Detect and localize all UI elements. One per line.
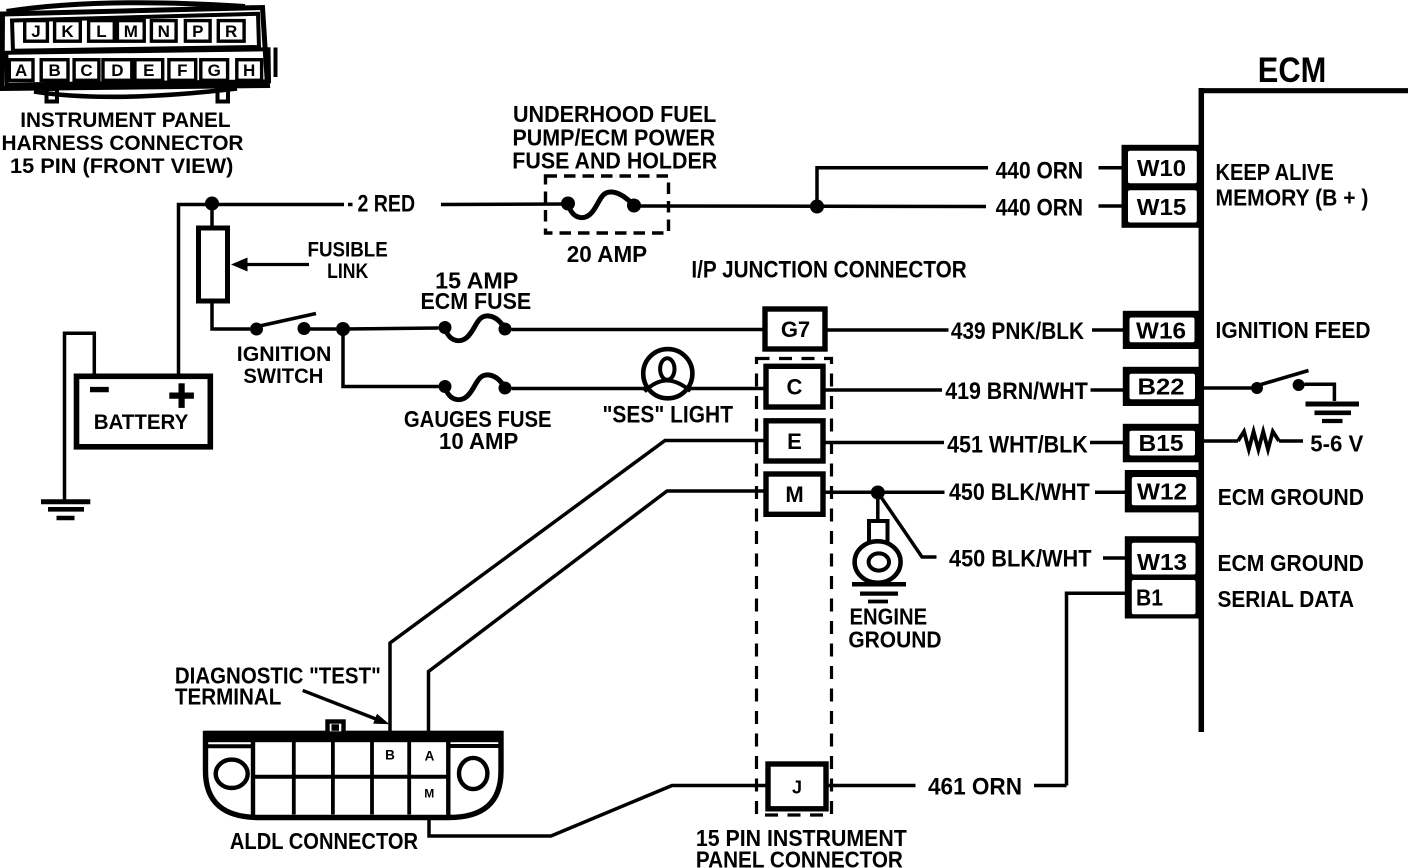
connector pin G7 xyxy=(765,309,825,349)
ALDL test tab xyxy=(328,722,344,734)
svg-text:UNDERHOOD FUEL: UNDERHOOD FUEL xyxy=(513,101,716,127)
svg-text:W10: W10 xyxy=(1137,155,1186,181)
pin G xyxy=(201,60,228,81)
pin F xyxy=(169,60,196,81)
connector pin C xyxy=(766,366,823,407)
svg-text:B: B xyxy=(385,748,395,763)
wire gauges fuse to SES light xyxy=(512,387,647,391)
svg-text:M: M xyxy=(424,787,434,801)
fuse F2 gauges fuse 10 AMP xyxy=(439,380,452,393)
connector pin J xyxy=(768,764,826,809)
svg-text:SERIAL DATA: SERIAL DATA xyxy=(1218,586,1355,612)
pin P xyxy=(185,21,210,42)
pin L xyxy=(89,21,115,42)
pin N xyxy=(151,21,176,42)
wire E to 451 WHT/BLK xyxy=(823,441,944,445)
wire 20A fuse to junction to 440 ORN lower xyxy=(634,204,986,208)
wire stub to W10 xyxy=(1099,166,1124,170)
svg-text:ALDL CONNECTOR: ALDL CONNECTOR xyxy=(230,828,419,854)
svg-text:L: L xyxy=(96,22,106,41)
svg-text:A: A xyxy=(425,749,435,764)
engine ground grommet xyxy=(855,541,901,583)
node fusible link tap xyxy=(205,197,219,211)
svg-text:W15: W15 xyxy=(1137,194,1187,220)
arrow fusible link callout xyxy=(245,263,309,266)
svg-text:W13: W13 xyxy=(1137,549,1187,575)
svg-text:D: D xyxy=(111,61,123,80)
wire M to 450 BLK/WHT xyxy=(823,491,945,495)
wire ALDL A terminal to M xyxy=(429,491,767,733)
wire stub to B22 xyxy=(1091,388,1125,392)
svg-text:GROUND: GROUND xyxy=(848,626,941,652)
svg-text:M: M xyxy=(785,482,803,507)
ground battery xyxy=(41,499,90,504)
svg-text:FUSE AND HOLDER: FUSE AND HOLDER xyxy=(512,147,717,173)
svg-text:20 AMP: 20 AMP xyxy=(567,241,647,267)
wire G7 to 439 PNK/BLK xyxy=(825,328,949,332)
svg-text:F: F xyxy=(177,61,187,80)
instrument panel harness connector drawing xyxy=(2,3,276,102)
svg-text:450 BLK/WHT: 450 BLK/WHT xyxy=(949,546,1092,573)
wire SES light to C xyxy=(690,387,766,391)
fuse F1 15 AMP ECM fuse xyxy=(439,321,452,334)
svg-text:J: J xyxy=(31,22,40,41)
svg-text:R: R xyxy=(225,22,237,41)
pin B xyxy=(41,60,68,81)
wire B1 serial data to 461 ORN corner xyxy=(1067,593,1127,785)
wire tick before 2 RED xyxy=(348,203,353,207)
dashed holder 20A fuse xyxy=(546,176,669,233)
svg-text:G: G xyxy=(208,61,221,80)
svg-text:ECM GROUND: ECM GROUND xyxy=(1218,484,1364,510)
ECM pin B22 xyxy=(1123,367,1203,406)
lamp SES light xyxy=(643,349,692,398)
node junction 440 ORN xyxy=(810,200,824,214)
svg-text:C: C xyxy=(787,375,803,400)
svg-text:PANEL CONNECTOR: PANEL CONNECTOR xyxy=(696,847,903,868)
svg-text:450 BLK/WHT: 450 BLK/WHT xyxy=(949,479,1090,506)
svg-text:LINK: LINK xyxy=(327,259,368,283)
svg-text:B1: B1 xyxy=(1136,585,1163,611)
connector pin M xyxy=(766,474,823,514)
svg-text:FUSIBLE: FUSIBLE xyxy=(308,237,388,261)
ignition switch contact right xyxy=(298,322,311,335)
svg-text:439 PNK/BLK: 439 PNK/BLK xyxy=(951,318,1085,345)
svg-text:J: J xyxy=(792,778,802,798)
svg-text:B22: B22 xyxy=(1138,373,1185,399)
svg-text:M: M xyxy=(124,22,138,41)
svg-text:IGNITION: IGNITION xyxy=(237,343,332,366)
node ignition junction xyxy=(336,322,350,336)
ECM pin B15 xyxy=(1123,424,1203,463)
fuse F3 20 AMP underhood xyxy=(561,197,575,211)
wire 15A fuse to G7 xyxy=(512,328,766,332)
fusible link body xyxy=(199,228,228,301)
wire stub to W12 xyxy=(1095,491,1126,495)
switch at B22 xyxy=(1203,386,1252,390)
wire junction to 15A fuse xyxy=(343,328,439,329)
ground at B22 xyxy=(1306,402,1360,407)
wire ALDL B terminal to E xyxy=(390,441,766,734)
svg-text:W16: W16 xyxy=(1136,318,1186,344)
pin R xyxy=(218,21,244,42)
ground engine ground hatches xyxy=(852,582,906,587)
svg-text:10 AMP: 10 AMP xyxy=(439,428,518,454)
svg-text:P: P xyxy=(192,22,203,41)
svg-text:W12: W12 xyxy=(1137,478,1187,504)
svg-text:451 WHT/BLK: 451 WHT/BLK xyxy=(947,432,1088,459)
svg-text:ECM: ECM xyxy=(1258,50,1327,90)
wire fusible link bottom to ignition switch xyxy=(212,301,250,329)
svg-text:ECM FUSE: ECM FUSE xyxy=(421,288,532,314)
wire stub to W13 xyxy=(1103,556,1126,560)
svg-text:E: E xyxy=(143,61,154,80)
pin D xyxy=(103,60,132,81)
wire battery negative xyxy=(65,333,95,500)
svg-text:E: E xyxy=(787,429,802,454)
wire 461 ORN to corner xyxy=(1034,784,1067,788)
ignition switch contact left xyxy=(250,323,263,336)
svg-text:SWITCH: SWITCH xyxy=(243,365,323,388)
pin K xyxy=(55,21,81,42)
ECM pin W16 xyxy=(1123,311,1202,349)
pin J xyxy=(25,21,48,42)
wire junction down to gauges fuse xyxy=(343,329,439,387)
svg-text:ECM GROUND: ECM GROUND xyxy=(1218,550,1364,576)
svg-text:BATTERY: BATTERY xyxy=(94,410,189,434)
wire diagonal tap to 450 BLK/WHT W13 xyxy=(881,497,937,557)
engine ground grommet neck xyxy=(869,521,888,542)
svg-text:B: B xyxy=(48,61,60,80)
pin E xyxy=(135,60,163,81)
wire battery positive to 2 RED run xyxy=(179,205,345,377)
svg-text:419 BRN/WHT: 419 BRN/WHT xyxy=(945,378,1088,405)
dashed 15 pin instrument panel connector outline xyxy=(757,359,832,816)
svg-text:440 ORN: 440 ORN xyxy=(996,195,1084,222)
ECM pin W12 xyxy=(1125,470,1203,512)
wire stub to W15 xyxy=(1099,204,1124,208)
wire stub to W16 xyxy=(1092,328,1124,332)
ECM pin W13 and B1 xyxy=(1125,536,1203,618)
svg-text:440 ORN: 440 ORN xyxy=(996,157,1084,184)
svg-text:KEEP ALIVE: KEEP ALIVE xyxy=(1216,159,1334,185)
wire fusible link top lead xyxy=(210,204,214,228)
svg-text:IGNITION FEED: IGNITION FEED xyxy=(1216,317,1371,343)
arrow diagnostic test terminal xyxy=(303,690,376,719)
resistor at B15 xyxy=(1203,439,1238,443)
svg-text:B15: B15 xyxy=(1139,430,1184,456)
wire branch up to 440 ORN upper xyxy=(817,168,988,207)
svg-text:K: K xyxy=(61,22,74,41)
svg-text:5-6 V: 5-6 V xyxy=(1310,431,1364,457)
svg-text:461 ORN: 461 ORN xyxy=(928,774,1022,801)
svg-text:INSTRUMENT PANEL: INSTRUMENT PANEL xyxy=(20,108,230,132)
wire 2 RED label to 20A fuse xyxy=(441,202,568,206)
wire J to 461 ORN xyxy=(826,784,916,788)
svg-text:TERMINAL: TERMINAL xyxy=(175,684,282,710)
svg-text:2 RED: 2 RED xyxy=(358,191,416,218)
svg-text:MEMORY (B + ): MEMORY (B + ) xyxy=(1216,185,1369,211)
svg-text:A: A xyxy=(15,61,27,80)
wire C to 419 BRN/WHT xyxy=(823,388,942,392)
wire stub to B15 xyxy=(1090,441,1124,445)
ECM pin W10 and W15 xyxy=(1122,145,1203,228)
wire tap down to engine ground xyxy=(876,493,880,522)
pin C xyxy=(74,60,99,81)
svg-text:HARNESS CONNECTOR: HARNESS CONNECTOR xyxy=(2,131,244,155)
svg-text:H: H xyxy=(243,61,255,80)
wire ALDL M terminal to J xyxy=(429,786,768,837)
ECM body line xyxy=(1199,88,1205,732)
svg-text:I/P JUNCTION CONNECTOR: I/P JUNCTION CONNECTOR xyxy=(691,257,966,284)
pin A xyxy=(9,60,33,81)
svg-text:C: C xyxy=(80,61,92,80)
pin H xyxy=(237,60,262,81)
svg-text:G7: G7 xyxy=(781,317,810,342)
ECM top line xyxy=(1199,88,1408,93)
node engine ground tap xyxy=(871,486,885,500)
ignition switch blade xyxy=(260,314,317,327)
svg-text:N: N xyxy=(158,22,170,41)
connector pin E xyxy=(766,421,823,461)
wire switch to junction xyxy=(310,327,336,331)
battery B1 xyxy=(77,376,211,447)
ALDL connector drawing xyxy=(206,731,502,818)
svg-text:"SES" LIGHT: "SES" LIGHT xyxy=(603,402,734,429)
svg-text:15 PIN (FRONT VIEW): 15 PIN (FRONT VIEW) xyxy=(10,154,233,178)
pin M xyxy=(117,21,144,42)
